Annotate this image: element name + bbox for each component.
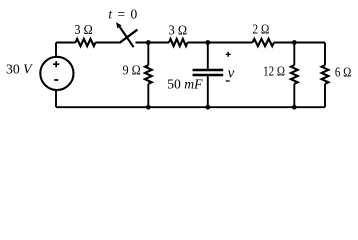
wire 9ohm branch lower (147, 84, 149, 107)
voltage source plus sign (53, 61, 59, 67)
svg-text:t = 0: t = 0 (108, 7, 137, 22)
resistor R6 6ohm zigzag vertical (322, 65, 329, 84)
wire capacitor branch upper (207, 43, 209, 69)
resistor R5 12ohm zigzag vertical (291, 65, 298, 84)
wire switch right contact to node A (136, 42, 170, 44)
svg-text:12 Ω: 12 Ω (263, 64, 285, 79)
switch motion arrow shaft (119, 25, 134, 47)
wire right rail lower (324, 84, 326, 107)
wire left rail lower (55, 91, 57, 107)
capacitor minus polarity mark (226, 80, 230, 82)
junction bottom of 9ohm (146, 105, 151, 110)
resistor R3 2ohm zigzag (253, 39, 275, 46)
resistor R1 3ohm zigzag (76, 39, 96, 46)
switch blade t=0 (119, 30, 137, 43)
wire bottom rail (56, 106, 325, 108)
svg-text:30 V: 30 V (6, 62, 33, 77)
wire right rail upper (324, 43, 326, 66)
svg-text:v: v (228, 65, 235, 81)
junction bottom of capacitor (205, 105, 210, 110)
svg-text:2 Ω: 2 Ω (252, 21, 269, 36)
wire top rail left segment (56, 42, 76, 44)
capacitor plus polarity mark (226, 52, 231, 57)
wire R2 to R3 through node B (188, 42, 253, 44)
wire left rail upper (55, 43, 57, 56)
capacitor C1 top plate (193, 69, 224, 71)
wire capacitor branch lower (207, 76, 209, 107)
voltage source VS circle (40, 57, 73, 90)
junction node C top of 12ohm (292, 40, 297, 45)
svg-text:3 Ω: 3 Ω (169, 23, 188, 38)
svg-text:9 Ω: 9 Ω (123, 63, 141, 78)
svg-text:3 Ω: 3 Ω (74, 22, 92, 37)
voltage source minus sign (54, 79, 58, 81)
svg-text:50 mF: 50 mF (167, 77, 203, 92)
capacitor C1 bottom plate (193, 74, 224, 76)
junction node B top of capacitor (205, 40, 210, 45)
resistor R4 9ohm zigzag vertical (145, 65, 152, 84)
wire 9ohm branch upper (147, 43, 149, 66)
svg-text:6 Ω: 6 Ω (335, 64, 352, 79)
junction bottom of 12ohm (292, 105, 297, 110)
junction node A top of 9ohm (146, 40, 151, 45)
wire R1 to switch (96, 42, 120, 44)
wire 12ohm branch upper (293, 43, 295, 66)
wire R3 to top right corner (274, 42, 325, 44)
resistor R2 3ohm zigzag (169, 39, 188, 46)
switch arrow head (116, 22, 122, 28)
wire 12ohm branch lower (293, 84, 295, 107)
